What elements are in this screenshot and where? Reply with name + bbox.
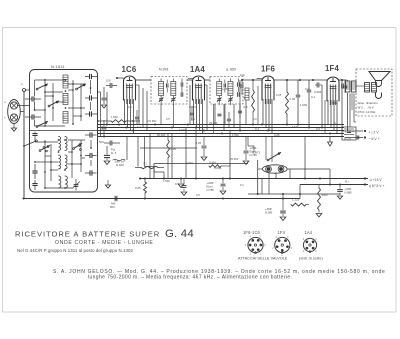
svg-text:0.1: 0.1	[175, 182, 179, 186]
svg-text:0.1: 0.1	[137, 125, 141, 129]
svg-text:25.000: 25.000	[209, 121, 218, 125]
svg-text:1F4: 1F4	[325, 64, 339, 73]
svg-text:Nel G.44C/R P gruppo N.1311 a: Nel G.44C/R P gruppo N.1311 al posto del…	[17, 248, 133, 253]
svg-text:0.05: 0.05	[135, 186, 141, 190]
svg-text:B.+: B.+	[345, 180, 350, 184]
svg-text:4: 4	[315, 237, 317, 241]
svg-text:a 650: a 650	[222, 87, 229, 91]
svg-text:(visti di sotto): (visti di sotto)	[299, 256, 323, 260]
svg-text:N.920: N.920	[116, 163, 124, 167]
svg-text:0.1: 0.1	[305, 87, 309, 91]
svg-text:50M: 50M	[332, 101, 338, 105]
svg-text:500: 500	[110, 205, 115, 209]
svg-text:0.5 MΩ: 0.5 MΩ	[147, 119, 157, 123]
svg-text:50.000: 50.000	[157, 133, 166, 137]
svg-text:100: 100	[240, 73, 245, 77]
svg-text:3: 3	[245, 243, 247, 247]
svg-text:500: 500	[99, 140, 104, 144]
svg-text:100: 100	[106, 79, 111, 83]
svg-text:0: 0	[63, 98, 65, 101]
svg-text:5: 5	[291, 246, 293, 250]
svg-text:0.3: 0.3	[255, 127, 259, 131]
svg-text:0.5: 0.5	[316, 127, 320, 131]
svg-text:6: 6	[264, 243, 266, 247]
svg-text:0.1: 0.1	[240, 183, 244, 187]
svg-text:N.785: N.785	[207, 188, 215, 192]
svg-text:ONDE CORTE - MEDIE - LUNGHE: ONDE CORTE - MEDIE - LUNGHE	[55, 240, 154, 246]
svg-text:0.1: 0.1	[311, 95, 315, 99]
svg-text:2: 2	[303, 249, 305, 253]
svg-text:1A4: 1A4	[305, 230, 313, 235]
svg-text:+2MF: +2MF	[207, 181, 214, 185]
svg-text:1C6: 1C6	[122, 65, 137, 74]
svg-text:0.5: 0.5	[196, 193, 200, 197]
svg-text:0.1: 0.1	[191, 117, 195, 121]
svg-text:W 5 ..... W 6: W 5 ..... W 6	[358, 106, 375, 110]
svg-text:1 MΩ: 1 MΩ	[111, 115, 118, 119]
svg-text:-o +15 V: -o +15 V	[369, 178, 382, 182]
svg-text:4: 4	[250, 235, 252, 239]
svg-text:0.02: 0.02	[290, 97, 296, 101]
svg-text:1F4: 1F4	[278, 230, 286, 235]
svg-text:0.094: 0.094	[314, 90, 322, 94]
svg-text:Elect.: Elect.	[207, 185, 214, 189]
svg-text:T: T	[4, 117, 6, 120]
svg-text:1: 1	[259, 251, 261, 255]
svg-text:0.25: 0.25	[171, 147, 177, 151]
svg-text:− 6 V +: − 6 V +	[369, 137, 380, 141]
svg-text:N.991: N.991	[159, 67, 169, 71]
svg-text:0.1: 0.1	[334, 121, 338, 125]
svg-text:+2MF: +2MF	[345, 187, 352, 191]
svg-text:•| 67.5 V +: •| 67.5 V +	[369, 184, 384, 188]
svg-text:1F6: 1F6	[261, 64, 275, 73]
svg-text:RICEVITORE A BATTERIE SUPER: RICEVITORE A BATTERIE SUPER	[15, 229, 160, 238]
svg-text:lunghe 750-2000 m. – Media f: lunghe 750-2000 m. – Media frequenza: 46…	[88, 275, 292, 281]
svg-text:5: 5	[259, 235, 261, 239]
svg-text:(PhO. 12 Wa): (PhO. 12 Wa)	[358, 110, 376, 114]
svg-text:+ | 2 V: + | 2 V	[369, 130, 380, 134]
svg-text:0.5: 0.5	[166, 117, 170, 121]
svg-text:N. 4: N. 4	[111, 151, 117, 155]
svg-text:6.000: 6.000	[179, 128, 186, 132]
svg-text:A: A	[4, 101, 6, 104]
svg-text:1A4: 1A4	[190, 65, 205, 74]
svg-text:N.1511: N.1511	[51, 64, 65, 69]
svg-text:0.25: 0.25	[274, 133, 280, 137]
svg-text:N.985: N.985	[345, 191, 353, 195]
svg-text:4: 4	[287, 235, 289, 239]
svg-text:a. 650: a. 650	[226, 67, 236, 71]
svg-text:2: 2	[272, 246, 274, 250]
svg-text:0.1: 0.1	[143, 162, 147, 166]
svg-text:N.985: N.985	[265, 211, 273, 215]
svg-text:1.500: 1.500	[232, 133, 239, 137]
svg-text:1.125: 1.125	[292, 198, 300, 202]
svg-text:1.500: 1.500	[163, 179, 170, 183]
svg-text:A.: A.	[21, 83, 24, 86]
svg-text:2: 2	[250, 251, 252, 255]
svg-text:+2MF: +2MF	[250, 146, 257, 150]
svg-text:1 MΩ: 1 MΩ	[300, 103, 308, 107]
svg-text:0.1: 0.1	[128, 105, 132, 109]
svg-text:Altop. dinamico: Altop. dinamico	[358, 101, 378, 105]
svg-text:0.25: 0.25	[276, 93, 282, 97]
svg-text:1: 1	[315, 249, 317, 253]
svg-text:5 MΩ: 5 MΩ	[292, 125, 299, 129]
svg-text:3: 3	[276, 235, 278, 239]
svg-text:0.2: 0.2	[253, 117, 257, 121]
svg-text:25.000: 25.000	[230, 157, 239, 161]
svg-text:0.094: 0.094	[186, 161, 193, 165]
svg-text:5000: 5000	[322, 193, 329, 197]
svg-text:N.973: N.973	[252, 151, 260, 155]
svg-text:1F6-1C6: 1F6-1C6	[243, 230, 261, 235]
svg-text:G. 44: G. 44	[165, 228, 194, 240]
svg-text:ATTACCHI DELLE VALVOLE: ATTACCHI DELLE VALVOLE	[238, 256, 288, 260]
svg-text:0.25: 0.25	[196, 141, 202, 145]
svg-text:+2MF: +2MF	[265, 207, 272, 211]
svg-text:3: 3	[303, 237, 305, 241]
